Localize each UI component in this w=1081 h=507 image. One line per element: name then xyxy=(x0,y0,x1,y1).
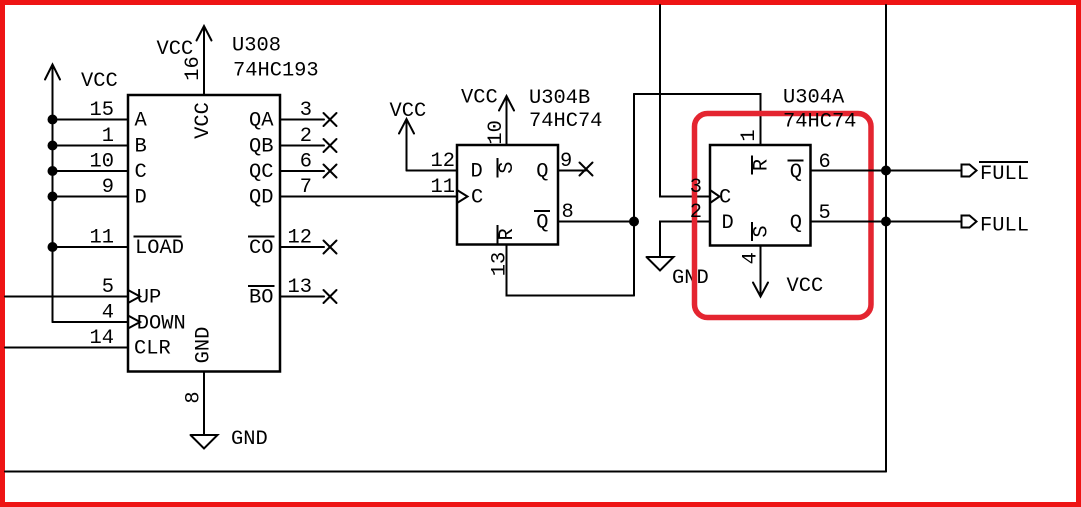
svg-text:Q: Q xyxy=(790,212,802,235)
svg-text:QA: QA xyxy=(249,110,274,133)
U304A pin name R rotated with overline xyxy=(751,156,774,175)
U304B reference label xyxy=(529,87,602,133)
svg-text:Q: Q xyxy=(536,212,548,235)
wire QD pin7 to U304B C pin11 xyxy=(280,196,457,198)
svg-text:S: S xyxy=(496,161,519,173)
wire B to U308 pin 1 xyxy=(53,145,129,147)
bottom horizontal wire xyxy=(5,471,886,473)
svg-text:QC: QC xyxy=(249,161,273,184)
svg-text:74HC74: 74HC74 xyxy=(529,110,602,133)
U304A pin numbers 3 2 xyxy=(690,176,702,224)
U308 clock triangle DOWN pin xyxy=(128,316,140,329)
junction dot node LOAD xyxy=(48,242,58,252)
svg-text:QD: QD xyxy=(249,187,273,210)
svg-text:D: D xyxy=(722,212,734,235)
svg-text:LOAD: LOAD xyxy=(135,237,184,260)
junction dot node A xyxy=(48,115,58,125)
no-connect X pin 9 xyxy=(580,163,593,176)
U304B pin numbers 12 11 xyxy=(431,150,455,199)
wire GND to U304A D pin 2 xyxy=(660,222,710,258)
svg-text:S: S xyxy=(751,225,774,237)
junction dot node C xyxy=(48,166,58,176)
red highlight around U304A xyxy=(695,114,872,318)
U304B pin name S rotated with overline xyxy=(496,158,519,178)
svg-text:QB: QB xyxy=(249,136,273,159)
U308 pin names left xyxy=(135,110,148,210)
no-connect X pin 13 xyxy=(324,290,337,303)
wire clock input from top to U304A C pin 3 xyxy=(660,5,710,197)
svg-text:4: 4 xyxy=(740,252,763,264)
svg-text:VCC: VCC xyxy=(461,87,498,110)
U304A pin name Qbar with overline xyxy=(788,161,804,185)
svg-text:D: D xyxy=(471,161,483,184)
svg-text:C: C xyxy=(135,161,147,184)
global label FULL xyxy=(962,215,1029,238)
svg-text:GND: GND xyxy=(231,428,268,451)
wire U304A Qbar pin 6 to FULLbar flag xyxy=(811,170,962,172)
svg-text:4: 4 xyxy=(102,302,114,325)
svg-text:D: D xyxy=(135,187,147,210)
wire top run to U304A R pin 1 xyxy=(634,94,761,145)
svg-text:U308: U308 xyxy=(232,35,281,58)
U308 pin name LOAD with overline xyxy=(134,237,184,261)
U308 reference label xyxy=(232,35,319,83)
flip-flop U304B 74HC74 body xyxy=(457,145,558,245)
svg-text:U304A: U304A xyxy=(783,87,845,110)
U304A reference label xyxy=(783,87,856,134)
U308 pin name CO with overline xyxy=(248,237,275,261)
svg-text:9: 9 xyxy=(102,176,114,199)
U308 QB stub wire xyxy=(280,145,324,147)
wire A to U308 pin 15 xyxy=(53,119,129,121)
wire D to U308 pin 9 xyxy=(53,196,129,198)
svg-text:UP: UP xyxy=(137,287,161,310)
U304B pin name R rotated with overline xyxy=(496,225,519,244)
VCC symbol at U304B pin 12 xyxy=(390,100,427,171)
svg-text:C: C xyxy=(471,187,483,210)
U304A clock triangle xyxy=(710,190,720,203)
junction dot Qbar net xyxy=(629,217,639,227)
svg-text:14: 14 xyxy=(90,327,114,350)
vertical wire Qbar net xyxy=(633,94,635,296)
U304A pin name S rotated with overline xyxy=(751,222,774,241)
svg-text:5: 5 xyxy=(102,276,114,299)
svg-text:BO: BO xyxy=(249,287,273,310)
wire U304A Q pin 5 to FULL flag xyxy=(811,221,962,223)
no-connect X pin 2 xyxy=(324,139,337,152)
U304B pin 10 S wire with VCC arrow xyxy=(461,87,514,146)
svg-text:Q: Q xyxy=(790,161,802,184)
no-connect X pin 6 xyxy=(324,165,337,178)
svg-text:VCC: VCC xyxy=(81,70,118,93)
svg-text:CLR: CLR xyxy=(134,338,171,361)
svg-text:11: 11 xyxy=(90,227,114,250)
svg-text:U304B: U304B xyxy=(529,87,590,110)
U308 clock triangle UP pin xyxy=(128,290,140,303)
U308 QC stub wire xyxy=(280,170,324,172)
U304A pin numbers 6 5 xyxy=(819,151,831,225)
U304B clock triangle xyxy=(457,190,468,203)
wire UP input to U308 pin 5 xyxy=(5,296,128,298)
svg-text:2: 2 xyxy=(690,201,702,224)
U308 BO stub wire xyxy=(280,296,324,298)
svg-text:GND: GND xyxy=(193,327,216,364)
VCC power rail left xyxy=(45,65,118,323)
U308 CO stub wire xyxy=(280,246,324,248)
svg-text:1: 1 xyxy=(102,125,114,148)
svg-text:11: 11 xyxy=(431,176,455,199)
wire bottom run to U304B R pin 13 xyxy=(507,245,635,296)
U308 right pin numbers xyxy=(288,99,312,299)
svg-text:FULL: FULL xyxy=(980,215,1029,238)
U304A pin 4 wire with VCC arrow down xyxy=(740,246,824,299)
svg-text:15: 15 xyxy=(90,99,114,122)
svg-text:3: 3 xyxy=(690,176,702,199)
counter U308 74HC193 body xyxy=(128,95,280,372)
U308 pin names right xyxy=(249,110,274,210)
svg-text:10: 10 xyxy=(485,120,508,144)
svg-text:16: 16 xyxy=(182,56,205,80)
svg-text:CO: CO xyxy=(249,237,273,260)
svg-text:R: R xyxy=(751,159,774,171)
svg-text:Q: Q xyxy=(536,161,548,184)
svg-text:C: C xyxy=(719,187,731,210)
U304B pin name Qbar with overline xyxy=(534,211,550,235)
svg-text:A: A xyxy=(135,110,148,133)
svg-text:13: 13 xyxy=(489,252,512,276)
svg-text:74HC74: 74HC74 xyxy=(783,111,856,134)
svg-text:10: 10 xyxy=(90,151,114,174)
svg-text:74HC193: 74HC193 xyxy=(233,60,319,83)
svg-text:B: B xyxy=(135,136,147,159)
wire CLR input to U308 pin 14 xyxy=(5,347,128,349)
svg-text:1: 1 xyxy=(738,129,761,141)
svg-text:12: 12 xyxy=(431,150,455,173)
svg-text:VCC: VCC xyxy=(787,275,824,298)
junction dot FULLbar net xyxy=(881,166,891,176)
svg-text:GND: GND xyxy=(672,267,709,290)
no-connect X pin 12 xyxy=(324,241,337,254)
svg-text:DOWN: DOWN xyxy=(137,313,186,336)
svg-text:8: 8 xyxy=(183,391,206,403)
ground symbol U308 xyxy=(191,428,268,451)
svg-text:FULL: FULL xyxy=(980,163,1029,186)
junction dot node D xyxy=(48,192,58,202)
U308 pin name BO with overline xyxy=(248,286,275,310)
junction dot FULL net xyxy=(881,217,891,227)
global label FULLbar xyxy=(962,162,1029,186)
U308 pin 8 GND wire xyxy=(183,372,206,436)
no-connect X pin 3 xyxy=(324,113,337,126)
wire VCC to U304B D pin 12 xyxy=(407,170,458,172)
wire U304B Qbar pin 8 to junction xyxy=(558,221,634,223)
flip-flop U304A 74HC74 body xyxy=(710,145,811,246)
wire LOAD to U308 pin 11 xyxy=(53,246,129,248)
U308 pin 16 VCC wire xyxy=(157,26,212,95)
svg-text:VCC: VCC xyxy=(390,100,427,123)
ground symbol U304A D xyxy=(647,257,709,290)
vertical wire right bus xyxy=(885,5,887,472)
svg-text:VCC: VCC xyxy=(192,102,215,139)
svg-text:R: R xyxy=(496,228,519,240)
U308 left pin numbers xyxy=(90,99,114,350)
wire C to U308 pin 10 xyxy=(53,170,129,172)
U304B Q stub wire xyxy=(558,170,586,172)
wire DOWN to U308 pin 4 xyxy=(53,321,129,323)
U308 QA stub wire xyxy=(280,119,324,121)
junction dot node B xyxy=(48,141,58,151)
